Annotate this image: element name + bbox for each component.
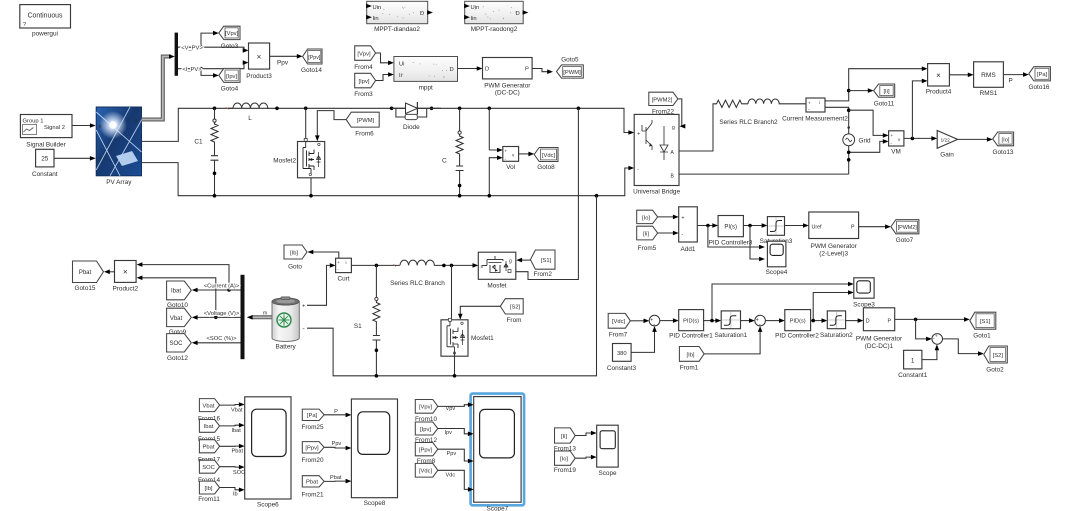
svg-text:Current Measurement2: Current Measurement2 [782, 115, 848, 122]
svg-text:From11: From11 [198, 496, 220, 503]
svg-text:Ibat: Ibat [171, 289, 181, 295]
svg-text:MPPT-raodong2: MPPT-raodong2 [471, 26, 518, 33]
svg-text:Vpv: Vpv [446, 406, 456, 412]
svg-text:Saturation2: Saturation2 [820, 332, 853, 339]
svg-text:[Pa]: [Pa] [307, 413, 318, 419]
svg-text:[Ii]: [Ii] [643, 231, 650, 237]
svg-text:Uin: Uin [471, 5, 480, 11]
svg-text:Product2: Product2 [113, 285, 139, 292]
svg-text:SOC: SOC [169, 341, 183, 347]
svg-text:P: P [1009, 78, 1013, 85]
svg-text:Curt: Curt [337, 275, 349, 282]
svg-text:Ui: Ui [399, 62, 404, 68]
svg-text:[PWM]: [PWM] [563, 70, 581, 76]
svg-text:[PWM]: [PWM] [357, 118, 375, 124]
svg-text:[Vdc]: [Vdc] [542, 153, 556, 159]
svg-text:Diode: Diode [403, 124, 420, 131]
svg-text:Gain: Gain [940, 152, 954, 159]
svg-text:Universal Bridge: Universal Bridge [633, 188, 680, 195]
svg-text:Ibat: Ibat [204, 424, 214, 430]
svg-text:powergui: powergui [32, 31, 58, 38]
svg-text:PV Array: PV Array [106, 179, 132, 186]
svg-text:Goto2: Goto2 [986, 366, 1004, 373]
svg-text:[S1]: [S1] [541, 258, 552, 264]
svg-text:i: i [819, 100, 820, 105]
svg-text:Pbat: Pbat [306, 480, 318, 486]
svg-text:Uin: Uin [373, 5, 382, 11]
svg-text:Goto: Goto [288, 264, 302, 271]
svg-text:Pbat: Pbat [203, 445, 215, 451]
svg-text:+: + [935, 334, 938, 339]
svg-text:From20: From20 [301, 457, 323, 464]
svg-text:Vol: Vol [506, 164, 515, 171]
svg-text:RMS1: RMS1 [980, 90, 998, 97]
svg-text:Goto7: Goto7 [896, 237, 914, 244]
svg-text:[Ppv]: [Ppv] [419, 448, 433, 454]
svg-text:RMS: RMS [981, 72, 996, 79]
svg-text:+: + [302, 303, 305, 309]
svg-text:[Ii]: [Ii] [561, 434, 568, 440]
svg-text:PID Controller3: PID Controller3 [709, 240, 753, 247]
svg-text:Scope: Scope [598, 470, 617, 477]
svg-text:MPPT-diandao2: MPPT-diandao2 [374, 26, 420, 33]
svg-text:Ppv: Ppv [447, 451, 457, 457]
svg-text:Group 1: Group 1 [23, 119, 44, 125]
svg-text:SOC: SOC [202, 465, 215, 471]
svg-text:Pbat: Pbat [232, 449, 244, 455]
svg-text:C: C [442, 158, 447, 165]
svg-text:[Vpv]: [Vpv] [419, 405, 433, 411]
svg-text:<Voltage (V)>: <Voltage (V)> [204, 311, 240, 317]
svg-text:[S2]: [S2] [993, 353, 1004, 359]
svg-text:Ipv: Ipv [445, 430, 453, 436]
svg-text:Ii: Ii [399, 73, 402, 79]
svg-text:P: P [851, 225, 855, 231]
svg-text:Ppv: Ppv [332, 441, 342, 447]
svg-text:From25: From25 [301, 424, 323, 431]
svg-text:[PWM2]: [PWM2] [652, 98, 673, 104]
svg-text:[S1]: [S1] [980, 319, 991, 325]
svg-text:+: + [808, 101, 811, 106]
svg-text:Vbat: Vbat [231, 407, 243, 413]
svg-text:+: + [682, 215, 685, 221]
svg-text:Goto13: Goto13 [993, 149, 1014, 156]
svg-text:g: g [509, 259, 512, 265]
svg-text:Constant3: Constant3 [607, 365, 637, 372]
svg-text:<I_PV>: <I_PV> [182, 67, 202, 73]
svg-text:From6: From6 [355, 130, 374, 137]
svg-text:Add1: Add1 [681, 246, 696, 253]
svg-text:<V_PV>: <V_PV> [181, 45, 203, 51]
svg-text:+: + [890, 133, 893, 138]
svg-text:×: × [257, 53, 262, 62]
svg-text:[PWM2]: [PWM2] [898, 225, 918, 231]
svg-text:T: T [99, 158, 102, 164]
svg-text:PI(s): PI(s) [724, 225, 737, 231]
svg-text:From22: From22 [652, 109, 674, 116]
svg-text:Ib: Ib [233, 492, 238, 498]
svg-text:[Vpv]: [Vpv] [225, 31, 239, 37]
svg-text:<Current (A)>: <Current (A)> [204, 284, 240, 290]
svg-text:-: - [303, 325, 305, 332]
svg-text:Goto14: Goto14 [301, 67, 322, 74]
svg-text:D: D [516, 11, 520, 17]
svg-text:Iin: Iin [471, 16, 477, 22]
svg-text:Series RLC Branch2: Series RLC Branch2 [719, 119, 778, 126]
svg-text:[Vdc]: [Vdc] [612, 319, 626, 325]
svg-text:Signal 2: Signal 2 [44, 125, 65, 131]
svg-text:[Ppv]: [Ppv] [305, 446, 319, 452]
svg-text:×: × [123, 268, 128, 277]
svg-text:[Ib]: [Ib] [686, 352, 694, 358]
svg-text:From4: From4 [354, 64, 373, 71]
svg-text:380: 380 [617, 351, 627, 357]
svg-text:From7: From7 [609, 331, 628, 338]
svg-text:[S2]: [S2] [510, 305, 521, 311]
svg-text:Signal Builder: Signal Builder [26, 142, 66, 149]
svg-text:PWM Generator: PWM Generator [484, 82, 531, 89]
svg-text:[Io]: [Io] [642, 215, 650, 221]
svg-text:D: D [485, 67, 489, 73]
svg-text:Ir: Ir [99, 124, 102, 130]
svg-text:Goto3: Goto3 [221, 43, 239, 50]
svg-text:PID Controller1: PID Controller1 [669, 333, 713, 340]
svg-text:Goto15: Goto15 [75, 285, 96, 292]
svg-text:From3: From3 [354, 91, 373, 98]
svg-text:From: From [507, 317, 522, 324]
svg-text:[Io]: [Io] [560, 457, 568, 463]
svg-text:[Ii]: [Ii] [883, 89, 890, 95]
svg-text:[Ib]: [Ib] [204, 486, 212, 492]
svg-text:+: + [505, 149, 508, 154]
svg-text:P: P [525, 67, 529, 73]
svg-text:Scope4: Scope4 [766, 269, 788, 276]
svg-text:Pbat: Pbat [330, 475, 342, 481]
svg-text:Pbat: Pbat [79, 270, 92, 276]
svg-text:[Vdc]: [Vdc] [419, 469, 433, 475]
svg-text:mppt: mppt [419, 85, 433, 92]
svg-text:Goto4: Goto4 [221, 86, 239, 93]
svg-text:1: 1 [911, 357, 915, 364]
svg-text:Vdc: Vdc [446, 472, 456, 478]
svg-text:[Ipv]: [Ipv] [226, 74, 237, 80]
svg-text:Goto11: Goto11 [874, 100, 895, 107]
svg-text:[Ppv]: [Ppv] [308, 55, 321, 61]
svg-text:Goto16: Goto16 [1029, 84, 1050, 91]
svg-text:P: P [888, 319, 892, 325]
svg-text:<SOC (%)>: <SOC (%)> [207, 336, 238, 342]
svg-text:[Ipv]: [Ipv] [420, 427, 431, 433]
svg-text:S1: S1 [354, 323, 362, 330]
svg-text:From19: From19 [554, 467, 576, 474]
svg-text:PID(s): PID(s) [683, 319, 699, 325]
svg-text:-: - [637, 167, 639, 173]
svg-text:Grid: Grid [859, 137, 872, 144]
svg-text:PWM Generator: PWM Generator [811, 243, 858, 250]
svg-text:Mosfet1: Mosfet1 [471, 335, 494, 342]
svg-text:PID(s): PID(s) [790, 319, 806, 325]
svg-text:(DC-DC): (DC-DC) [495, 89, 520, 96]
svg-text:1/22: 1/22 [941, 138, 951, 144]
svg-text:P: P [334, 409, 338, 415]
svg-text:[Ipv]: [Ipv] [359, 79, 370, 85]
svg-text:25: 25 [41, 156, 49, 163]
svg-text:D: D [450, 67, 454, 73]
svg-text:From5: From5 [638, 245, 657, 252]
svg-text:From21: From21 [301, 492, 323, 499]
svg-text:Iin: Iin [373, 16, 379, 22]
svg-text:(DC-DC)1: (DC-DC)1 [865, 343, 894, 350]
svg-text:Goto5: Goto5 [561, 57, 579, 64]
svg-text:VM: VM [891, 149, 901, 156]
svg-text:Battery: Battery [275, 344, 296, 351]
svg-text:Constant1: Constant1 [898, 372, 928, 379]
svg-text:Constant: Constant [32, 171, 58, 178]
svg-text:L: L [248, 115, 252, 122]
svg-text:m: m [134, 119, 138, 125]
svg-text:D: D [420, 11, 424, 17]
svg-text:[Io]: [Io] [1001, 137, 1009, 143]
svg-text:Scope7: Scope7 [487, 506, 509, 511]
svg-text:Mosfet: Mosfet [487, 282, 506, 289]
svg-text:Ibat: Ibat [232, 428, 242, 434]
svg-text:[Pa]: [Pa] [1037, 72, 1048, 78]
svg-text:Saturation1: Saturation1 [715, 332, 748, 339]
svg-text:Goto12: Goto12 [167, 355, 188, 362]
svg-text:Goto8: Goto8 [537, 164, 555, 171]
svg-text:PWM Generator: PWM Generator [856, 335, 903, 342]
svg-text:From1: From1 [680, 364, 699, 371]
svg-text:g: g [672, 125, 675, 131]
svg-text:(2-Level)3: (2-Level)3 [819, 251, 848, 258]
svg-text:C1: C1 [194, 138, 203, 145]
svg-text:m: m [263, 311, 267, 317]
svg-text:[Vpv]: [Vpv] [357, 52, 371, 58]
svg-text:Mosfet2: Mosfet2 [273, 158, 296, 165]
svg-text:+: + [637, 132, 640, 138]
svg-text:i: i [346, 260, 347, 265]
svg-text:Ppv: Ppv [277, 60, 289, 67]
svg-text:Vbat: Vbat [170, 316, 183, 322]
svg-text:PID Controller2: PID Controller2 [775, 333, 819, 340]
svg-text:[Ib]: [Ib] [290, 250, 298, 256]
svg-text:From2: From2 [533, 271, 552, 278]
svg-text:Scope6: Scope6 [257, 502, 279, 509]
svg-text:Continuous: Continuous [28, 13, 63, 20]
svg-text:SOC: SOC [233, 470, 245, 476]
svg-text:Vbat: Vbat [203, 403, 215, 409]
svg-text:Series RLC Branch: Series RLC Branch [390, 280, 445, 287]
svg-text:Product3: Product3 [246, 73, 272, 80]
svg-text:Goto1: Goto1 [973, 332, 991, 339]
svg-text:Scope8: Scope8 [364, 500, 386, 507]
svg-text:Product4: Product4 [926, 88, 952, 95]
svg-text:Uref: Uref [812, 225, 823, 231]
svg-text:+: + [337, 260, 340, 265]
svg-text:D: D [866, 319, 870, 325]
svg-text:×: × [936, 71, 941, 80]
